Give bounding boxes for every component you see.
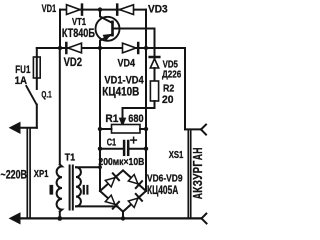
- resistor R2: [150, 81, 158, 101]
- socket XS1 pin 1: [185, 125, 206, 135]
- wire center column: [99, 48, 101, 191]
- svg-text:КЦ410В: КЦ410В: [102, 85, 139, 99]
- diode VD7 (upper-right edge): [128, 175, 142, 189]
- wire top rail: [60, 9, 146, 11]
- svg-text:А: А: [190, 154, 205, 161]
- node R1 right: [144, 127, 148, 131]
- svg-text:680: 680: [128, 113, 143, 125]
- transformer T1 primary winding I: [57, 48, 62, 218]
- svg-text:З: З: [190, 180, 205, 186]
- svg-text:Д226: Д226: [162, 69, 181, 81]
- svg-text:VD1: VD1: [42, 3, 57, 15]
- diode VD2: [66, 43, 81, 53]
- svg-text:У: У: [190, 173, 205, 180]
- node C1 left: [98, 147, 102, 151]
- plug XP1 pin 2: [11, 214, 20, 223]
- svg-text:200мк×10В: 200мк×10В: [98, 156, 144, 168]
- diode VD5: [150, 57, 160, 81]
- svg-text:VD2: VD2: [64, 57, 82, 69]
- svg-text:FU1: FU1: [15, 64, 30, 76]
- bridge rectifier VD6-VD9: [100, 170, 146, 218]
- svg-text:R2: R2: [163, 83, 174, 95]
- node primary bottom: [57, 216, 62, 221]
- XS1 double line: [188, 131, 190, 218]
- svg-text:~220В: ~220В: [1, 169, 28, 181]
- node secondary top tap: [98, 165, 102, 169]
- capacitor C1: [100, 137, 146, 155]
- fuse FU1: [33, 48, 40, 89]
- wire mid rail: [37, 47, 146, 49]
- node C1 right: [144, 147, 148, 151]
- svg-text:I: I: [48, 182, 54, 197]
- svg-text:R1: R1: [105, 113, 118, 125]
- svg-text:Г: Г: [190, 160, 205, 167]
- diode VD9 (lower-right edge): [128, 194, 142, 208]
- diode VD6 (upper-left edge): [105, 173, 119, 187]
- svg-text:Р: Р: [190, 167, 205, 173]
- wire load drop: [184, 48, 186, 129]
- svg-text:КТ840Б: КТ840Б: [62, 28, 95, 40]
- svg-text:А: А: [190, 193, 205, 200]
- node mains left junction: [58, 46, 62, 50]
- wire base: [113, 29, 155, 58]
- diode VD1: [67, 5, 83, 15]
- svg-text:C1: C1: [107, 138, 117, 149]
- wire R2 to R1: [123, 101, 155, 108]
- svg-text:XS1: XS1: [169, 149, 184, 161]
- svg-text:VD3: VD3: [148, 4, 168, 16]
- label NAGRUZKA (load) vertical: [190, 148, 205, 200]
- svg-text:VT1: VT1: [72, 17, 86, 28]
- plug XP1 pin 1: [11, 123, 37, 132]
- svg-text:Q.1: Q.1: [41, 90, 52, 101]
- node collector junction: [98, 7, 102, 11]
- svg-text:II: II: [82, 182, 89, 197]
- diode VD3: [117, 5, 133, 15]
- transformer core: [70, 166, 73, 210]
- svg-text:1A: 1A: [15, 75, 27, 87]
- node R1 left: [98, 127, 102, 131]
- node right AC junction: [144, 46, 148, 50]
- transistor VT1: [96, 10, 120, 48]
- socket XS1 pin 2: [202, 214, 207, 224]
- diode VD4: [123, 43, 139, 53]
- wire bottom rail: [13, 217, 202, 219]
- svg-text:20: 20: [162, 94, 174, 106]
- svg-text:VD4: VD4: [118, 57, 136, 69]
- diode VD8 (lower-left edge): [105, 195, 119, 209]
- wire R1 slider arrow: [120, 108, 125, 124]
- node emitter junction: [98, 46, 102, 50]
- resistor R1: [100, 125, 146, 134]
- transformer T1 secondary winding II: [76, 167, 118, 206]
- svg-text:К: К: [190, 186, 205, 192]
- svg-text:КЦ405А: КЦ405А: [147, 185, 178, 197]
- node bridge bottom: [121, 216, 125, 220]
- svg-text:XP1: XP1: [34, 168, 49, 180]
- switch Q1: [26, 86, 37, 128]
- svg-text:T1: T1: [65, 153, 76, 164]
- svg-text:VD6-VD9: VD6-VD9: [147, 174, 183, 185]
- svg-text:Н: Н: [190, 148, 205, 154]
- XP1 cord double line: [27, 128, 30, 219]
- wire left vertical: [59, 10, 61, 48]
- wire right column: [145, 10, 147, 191]
- wire load rail: [146, 47, 185, 49]
